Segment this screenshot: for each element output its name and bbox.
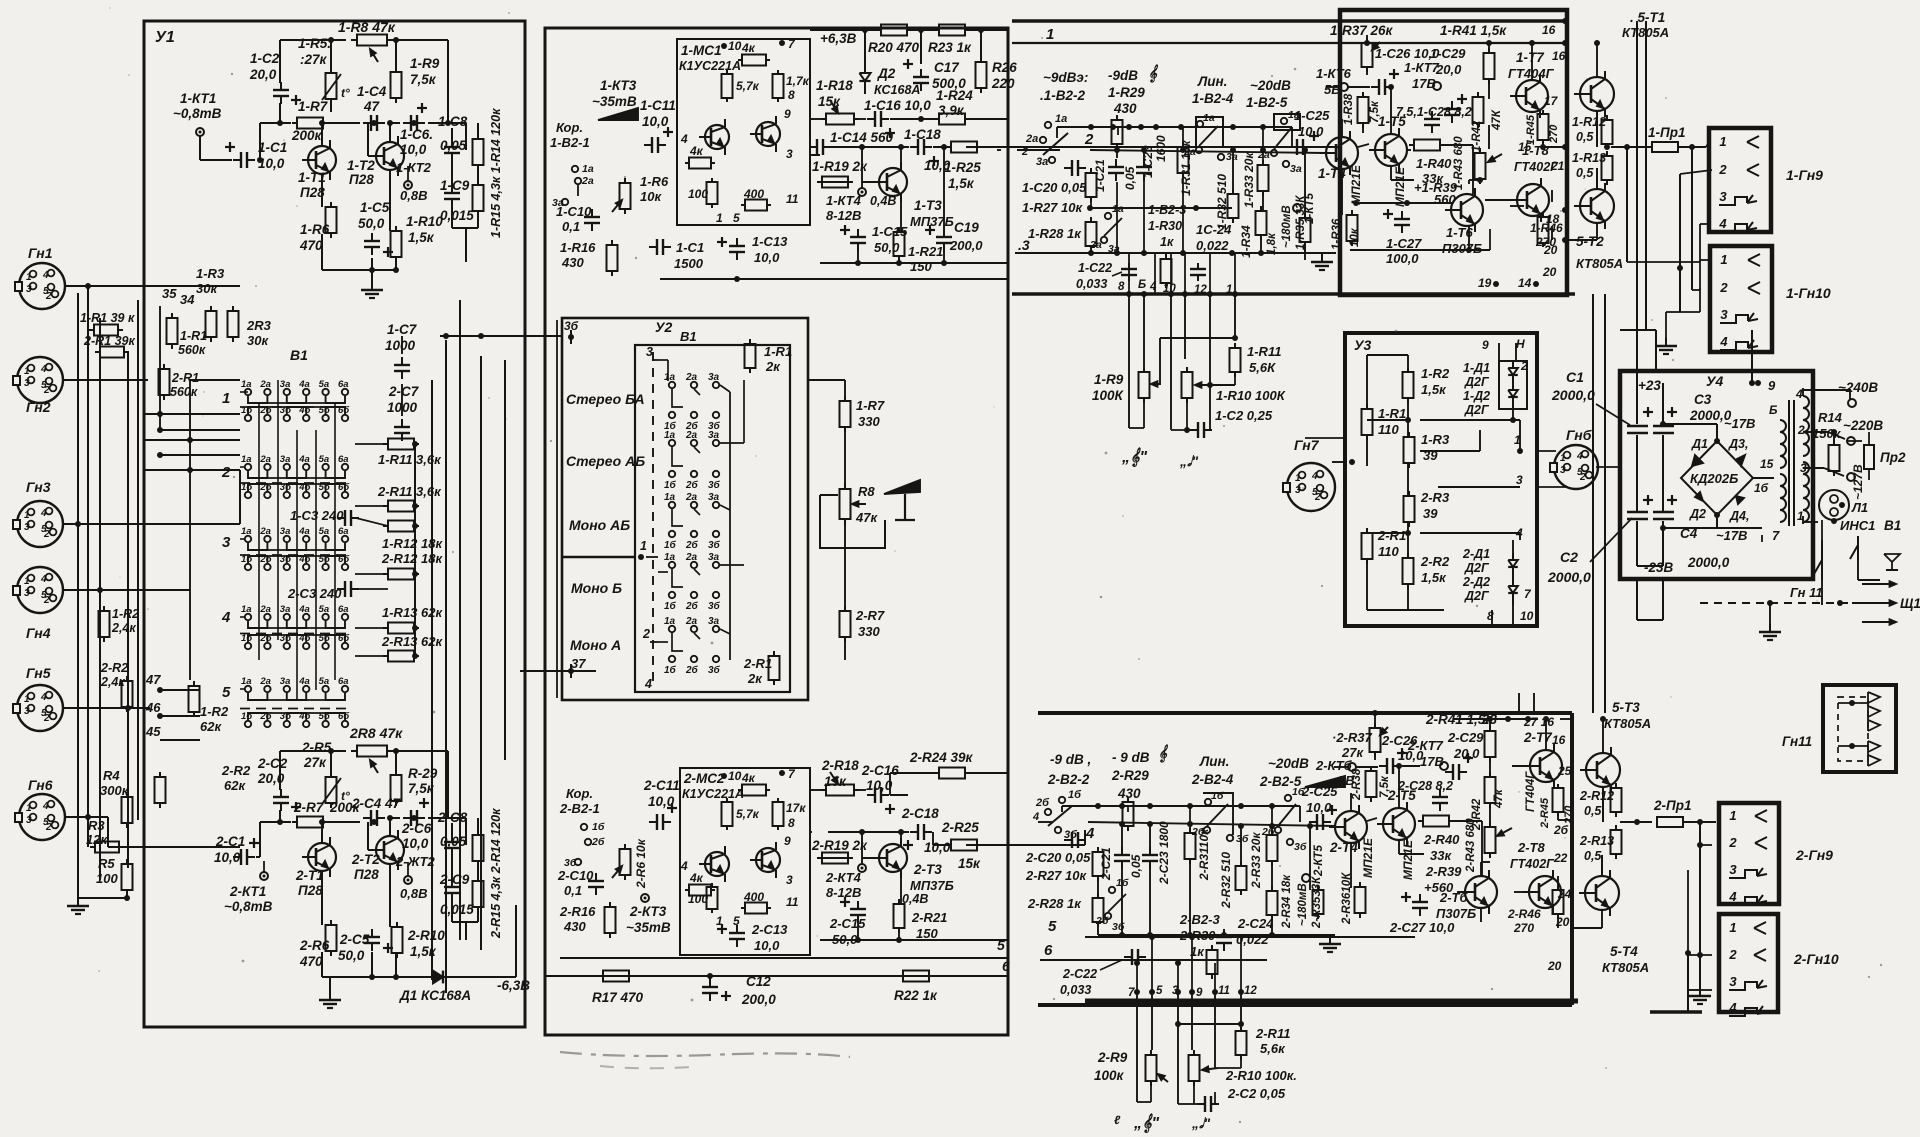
- svg-text:Д4,: Д4,: [1729, 509, 1749, 523]
- svg-text:5а: 5а: [319, 526, 330, 537]
- resistor 2-R24 39k: [934, 768, 970, 779]
- svg-text:1,5к: 1,5к: [1421, 570, 1447, 585]
- svg-text:1-С29: 1-С29: [1430, 46, 1466, 61]
- svg-text:3б: 3б: [708, 600, 721, 612]
- label bus 6: [1044, 942, 1053, 959]
- svg-text:4: 4: [40, 508, 47, 519]
- label 2-R3 30k: [246, 318, 272, 348]
- svg-text:2-R1: 2-R1: [743, 656, 772, 671]
- label 1-R13 62k: [382, 605, 443, 620]
- svg-text:47: 47: [363, 99, 381, 114]
- ground bottom right: [1650, 950, 1702, 1012]
- svg-text:С17: С17: [934, 60, 960, 75]
- svg-text:R3: R3: [88, 818, 105, 833]
- svg-text:1-Д2: 1-Д2: [1463, 389, 1490, 403]
- wire vert A: [87, 286, 89, 847]
- svg-text:1500: 1500: [674, 256, 704, 271]
- svg-text:МП37Б: МП37Б: [910, 878, 954, 893]
- svg-text:1а: 1а: [664, 492, 676, 503]
- label MC1 400: [743, 187, 764, 201]
- label 2-T6: [1436, 890, 1476, 921]
- svg-text:КТ805А: КТ805А: [1602, 960, 1649, 975]
- svg-text:2-С18: 2-С18: [901, 806, 939, 821]
- transistor 5-T1: [1574, 71, 1614, 117]
- svg-text:22: 22: [1553, 851, 1568, 865]
- capacitor 1-C4: [363, 115, 385, 131]
- label 1-KT1: [173, 91, 222, 121]
- label 1-C3 240: [290, 508, 344, 523]
- label 2-Pr1: [1653, 798, 1691, 813]
- transistor 5-T4: [1579, 870, 1619, 916]
- svg-text:10,0: 10,0: [402, 836, 429, 851]
- svg-text:2-R43 680: 2-R43 680: [1465, 818, 1477, 873]
- svg-text:1-R1: 1-R1: [764, 344, 792, 359]
- svg-text:34: 34: [180, 292, 195, 307]
- resistor 1-R42: [1473, 92, 1484, 128]
- svg-text:1б: 1б: [1211, 790, 1224, 802]
- svg-text:У3: У3: [1354, 337, 1371, 353]
- svg-text:Моно А: Моно А: [570, 637, 621, 653]
- svg-text:1а: 1а: [241, 454, 252, 465]
- label R26 220: [991, 60, 1017, 91]
- transistor 5-T3: [1580, 747, 1620, 793]
- svg-text:1-R41 1,5к: 1-R41 1,5к: [1440, 23, 1507, 38]
- resistor 1-R45 270: [1538, 110, 1549, 144]
- label 2-T1: [295, 868, 324, 898]
- svg-text:Гн5: Гн5: [26, 665, 51, 681]
- label Gn4: [26, 625, 51, 641]
- label R17 470: [592, 990, 644, 1005]
- label R5 100: [96, 856, 118, 886]
- svg-text:2а: 2а: [259, 526, 271, 537]
- svg-text:62к: 62к: [224, 778, 246, 793]
- svg-text:1-С25: 1-С25: [1294, 108, 1330, 123]
- label 1-C10: [556, 204, 592, 234]
- label 1-R29 430: [1108, 85, 1145, 116]
- svg-text:1-С9: 1-С9: [440, 178, 470, 193]
- svg-text:1-R36: 1-R36: [1331, 218, 1343, 250]
- svg-text:3: 3: [24, 706, 30, 717]
- wire 1-T8 region: [1510, 205, 1524, 207]
- label R14 150k: [1812, 410, 1843, 441]
- label 0.4V mc2: [902, 892, 928, 906]
- svg-text:2-R5: 2-R5: [301, 740, 332, 755]
- svg-text:1б: 1б: [664, 479, 677, 491]
- bus 1: [1012, 42, 1567, 44]
- svg-text:2-Гн10: 2-Гн10: [1793, 951, 1839, 967]
- svg-text:1-R38: 1-R38: [1343, 93, 1355, 125]
- svg-text:1б: 1б: [664, 664, 677, 676]
- label MP21E b2 rotated: [1401, 839, 1415, 880]
- label 7 u4: [1772, 528, 1780, 543]
- dots box1 edge: [1562, 18, 1568, 243]
- svg-text:1-R21: 1-R21: [908, 244, 943, 259]
- svg-text:3б: 3б: [708, 664, 721, 676]
- svg-text:В1: В1: [680, 329, 697, 344]
- label R23 1k: [928, 40, 972, 55]
- resistor 1-R1 2k: [745, 339, 756, 373]
- resistor 2-R1 39k: [95, 347, 129, 358]
- svg-text:30к: 30к: [196, 281, 218, 296]
- svg-text:1-R11: 1-R11: [1247, 344, 1281, 359]
- svg-text:1-R8 47к: 1-R8 47к: [338, 19, 396, 35]
- label 2-R7 200k: [293, 800, 361, 815]
- wire misc top: [1326, 35, 1370, 87]
- wire re u3 links: [1367, 420, 1513, 533]
- switch group 5 row a: [241, 676, 349, 692]
- svg-text:2-R15 4,3к 2-R14 120к: 2-R15 4,3к 2-R14 120к: [489, 808, 503, 939]
- resistor R22 1k: [898, 971, 934, 982]
- resistor 1-R16 430: [607, 240, 618, 276]
- svg-text:4к: 4к: [689, 871, 704, 885]
- switch group 3 row b: [241, 554, 350, 570]
- resistor 2-R27 10k: [1093, 847, 1104, 881]
- svg-text:4: 4: [680, 132, 688, 146]
- svg-text:5: 5: [1048, 918, 1057, 935]
- wire 1-T1 emitter: [322, 98, 331, 207]
- label 16 bridge: [1754, 481, 1769, 495]
- svg-text:3а: 3а: [1036, 156, 1048, 168]
- svg-text:R-29: R-29: [408, 766, 438, 781]
- svg-text:2-R21: 2-R21: [911, 910, 947, 925]
- svg-text:1,7к: 1,7к: [786, 74, 810, 88]
- svg-text:1000: 1000: [385, 338, 416, 353]
- svg-text:20: 20: [1543, 243, 1558, 257]
- svg-text:430: 430: [561, 255, 584, 270]
- svg-text:6а: 6а: [338, 604, 349, 615]
- wire 2-T4 T5: [1351, 763, 1402, 888]
- connector 2-Gn10: [1719, 914, 1778, 1016]
- svg-text:R22 1к: R22 1к: [894, 988, 938, 1003]
- label MC1 100: [688, 187, 708, 201]
- svg-text:2-С11: 2-С11: [643, 778, 680, 793]
- label 2-C25: [1301, 784, 1338, 815]
- svg-text:Гн6: Гн6: [28, 777, 53, 793]
- label 45: [145, 724, 161, 739]
- label 1-R5 27k: [298, 36, 331, 67]
- svg-text:100: 100: [688, 892, 708, 906]
- potentiometer 2R8 47k: [351, 746, 393, 774]
- svg-text:1-С1: 1-С1: [676, 240, 704, 255]
- test point 1-KT2: [404, 166, 412, 189]
- resistor 1-R41 1.5k: [1484, 48, 1495, 84]
- svg-text:2-R19 2к: 2-R19 2к: [811, 838, 868, 853]
- svg-text:4а: 4а: [298, 604, 310, 615]
- svg-text:1-R7: 1-R7: [856, 398, 885, 413]
- label 1-R11 3.6k: [378, 452, 442, 467]
- pins box1: [1478, 23, 1566, 290]
- label D2: [1689, 507, 1706, 521]
- wires conn2: [1688, 822, 1712, 990]
- label Mono B: [571, 580, 622, 596]
- capacitor 1-C25: [1289, 131, 1319, 155]
- svg-text:Д3,: Д3,: [1728, 437, 1748, 451]
- label GT404G rotated: [1525, 771, 1537, 812]
- wire U2 sep: [563, 554, 644, 560]
- capacitor 2-C10: [588, 873, 604, 895]
- svg-text:2-С15: 2-С15: [829, 916, 866, 931]
- svg-text:2-Д2: 2-Д2: [1462, 575, 1490, 589]
- svg-text:2-R13: 2-R13: [1579, 834, 1614, 848]
- svg-text:220: 220: [991, 76, 1015, 91]
- test point 1-KT4: [858, 188, 866, 196]
- svg-text:ИНС1: ИНС1: [1840, 518, 1875, 533]
- bridge KD202B: [1681, 441, 1753, 515]
- dashed gn11: [1700, 602, 1850, 604]
- svg-text:3: 3: [1729, 974, 1737, 989]
- svg-text:4: 4: [40, 364, 47, 375]
- svg-text:2а: 2а: [685, 492, 698, 503]
- svg-text:1-С20 0,05: 1-С20 0,05: [1022, 180, 1087, 195]
- svg-text:2-R13 62к: 2-R13 62к: [381, 634, 443, 649]
- switch 1-B2-3a: [1089, 203, 1124, 255]
- switch group 2 label: [221, 464, 231, 481]
- svg-text:47к: 47к: [1493, 788, 1505, 809]
- svg-text:4: 4: [1795, 387, 1803, 401]
- label 1-Gn9: [1786, 167, 1823, 183]
- svg-text:Н: Н: [1516, 337, 1525, 351]
- svg-text:6: 6: [1044, 942, 1053, 959]
- wires long vert mid: [1519, 693, 1534, 713]
- svg-text:1а: 1а: [1203, 112, 1215, 124]
- svg-text:3: 3: [1719, 189, 1727, 204]
- transistor 1-T4: [1320, 131, 1358, 175]
- svg-text:В1: В1: [290, 347, 308, 363]
- wedge rec indicator: [598, 108, 638, 120]
- svg-text:Б: Б: [1769, 403, 1778, 417]
- switch 1-B2-2: [1021, 113, 1068, 168]
- svg-text:4а: 4а: [298, 379, 310, 390]
- label 2-T8: [1510, 840, 1555, 871]
- svg-text:~0,8тВ: ~0,8тВ: [224, 899, 273, 914]
- svg-text:R8: R8: [858, 484, 875, 499]
- svg-text:10,0: 10,0: [1298, 124, 1324, 139]
- capacitor 1-C13: [717, 237, 745, 260]
- svg-text:4: 4: [1719, 334, 1728, 349]
- wire long vert 1: [1592, 294, 1594, 713]
- capacitor 1-C20: [1064, 160, 1086, 176]
- svg-text:КД202Б: КД202Б: [1690, 471, 1738, 486]
- resistor 1-R2 1.5k u3: [1403, 367, 1414, 403]
- capacitor 1-C1 1500: [649, 239, 671, 255]
- capacitor 2-C26: [1379, 748, 1407, 774]
- svg-text:100,0: 100,0: [1386, 251, 1419, 266]
- svg-text:1-R18: 1-R18: [816, 78, 853, 93]
- svg-text:1-R43 680: 1-R43 680: [1453, 136, 1465, 190]
- svg-text:9: 9: [1482, 338, 1489, 352]
- label U4: [1706, 373, 1723, 389]
- label V1 switch: [1884, 518, 1901, 533]
- label 2-C21 rotated: [1099, 847, 1113, 881]
- label 0.4V: [870, 194, 896, 208]
- resistor 2-R3 30k: [228, 306, 239, 342]
- switch B1 group 5: [664, 616, 721, 676]
- svg-text:R5: R5: [98, 856, 115, 871]
- resistor MC1 5.7k: [722, 70, 733, 102]
- svg-text:9: 9: [784, 107, 791, 121]
- svg-text:1а: 1а: [241, 379, 252, 390]
- capacitor 2-C8: [444, 834, 460, 856]
- label 1-KT3: [592, 78, 637, 109]
- ic 2-MC2 box: [680, 768, 810, 955]
- wire 2-T2 leads: [368, 815, 393, 927]
- svg-text:4: 4: [40, 692, 47, 703]
- label 2-R1 560k: [170, 371, 199, 399]
- capacitor 1-C11: [644, 127, 673, 153]
- svg-text:0,8В: 0,8В: [400, 886, 427, 901]
- transistor 2-T2: [370, 830, 404, 870]
- label 2-KT4: [825, 870, 862, 900]
- svg-text:0,5: 0,5: [1576, 130, 1594, 144]
- svg-text:5-Т3: 5-Т3: [1612, 700, 1640, 715]
- svg-text:1-R1: 1-R1: [1378, 406, 1406, 421]
- svg-text:Лин.: Лин.: [1197, 74, 1227, 89]
- label 35: [162, 286, 177, 301]
- label 1-R1 39k: [80, 311, 135, 325]
- resistor 1-R13 62k: [383, 623, 419, 634]
- label 1-C28: [1396, 105, 1472, 119]
- switch 2-B2-1: [564, 821, 605, 869]
- label -23V: [1644, 560, 1674, 575]
- svg-text:8-12В: 8-12В: [826, 885, 861, 900]
- transistor 2-T4: [1329, 805, 1367, 849]
- capacitor 2-C4: [363, 810, 385, 826]
- svg-text:2б: 2б: [1553, 823, 1569, 837]
- label 2-R25 15k: [941, 820, 981, 871]
- switch group 3 row a: [241, 526, 349, 542]
- capacitor 2-C29: [1445, 753, 1473, 780]
- svg-text:1-R37 26к: 1-R37 26к: [1330, 23, 1394, 38]
- label bus 4: [1085, 825, 1095, 842]
- label -9dB 1: [1043, 70, 1088, 85]
- svg-text:2-С2 0,05: 2-С2 0,05: [1227, 1086, 1286, 1101]
- svg-text:4: 4: [1576, 451, 1583, 462]
- label 1-R36 10k rotated: [1331, 218, 1361, 250]
- svg-text:10: 10: [728, 769, 742, 783]
- label 1-R41 1.5k: [1440, 23, 1507, 38]
- svg-text:1-R7: 1-R7: [298, 99, 329, 114]
- wire diode out: [455, 905, 516, 977]
- label R4 300k: [100, 768, 130, 798]
- label 2-R16 430: [559, 904, 596, 934]
- svg-text:1-С4: 1-С4: [357, 84, 387, 99]
- svg-text:С1: С1: [1566, 369, 1584, 385]
- label Gn 11: [1790, 585, 1843, 606]
- resistor 1-R34: [1256, 206, 1267, 240]
- svg-text:1б: 1б: [1754, 481, 1769, 495]
- potentiometer 1-R18 15k: [821, 100, 859, 125]
- label 1-C22: [1076, 261, 1112, 291]
- svg-text:2-С3 240: 2-С3 240: [287, 586, 342, 601]
- label 2-C5: [338, 932, 370, 963]
- test point 2-KT2: [404, 862, 412, 884]
- label 1-R3 39: [1421, 432, 1450, 463]
- label 1-R1 2k: [764, 344, 792, 374]
- svg-text:11: 11: [786, 895, 799, 909]
- svg-text:1-КТ1: 1-КТ1: [180, 91, 216, 106]
- label 1-C2 0.25: [1215, 408, 1273, 423]
- label 2-R24 39k: [909, 750, 974, 765]
- svg-text:Гн11: Гн11: [1782, 734, 1812, 749]
- svg-text:4: 4: [40, 574, 47, 585]
- resistor 2-R15: [473, 830, 484, 866]
- svg-text:2: 2: [1797, 423, 1805, 437]
- svg-text:0,033: 0,033: [1076, 277, 1107, 291]
- transformer secondary: [1803, 396, 1809, 522]
- switch group 5 coupling dashed: [240, 708, 352, 710]
- svg-text:2: 2: [1314, 492, 1321, 503]
- svg-text:0,022: 0,022: [1196, 238, 1229, 253]
- label MC2 5.7k: [736, 807, 760, 821]
- svg-text:2-R29: 2-R29: [1111, 768, 1149, 783]
- switch 2-B2-2: [1032, 789, 1082, 841]
- svg-text:0,1: 0,1: [564, 883, 582, 898]
- label 2-T2: [351, 852, 380, 882]
- label 2000.0 bottom: [1687, 555, 1730, 570]
- wire ch1 y40: [280, 37, 448, 43]
- wire y208 tone1: [1087, 205, 1232, 211]
- svg-text:1: 1: [1046, 26, 1054, 43]
- svg-text:3а: 3а: [280, 676, 291, 687]
- label 1-R15 1-R14 rotated: [489, 108, 503, 238]
- fuse 2-Pr1: [1657, 817, 1716, 827]
- svg-text:1-МС1: 1-МС1: [681, 43, 722, 58]
- svg-text:ℓ: ℓ: [1114, 1113, 1121, 1127]
- switch group 1 row a: [241, 379, 349, 395]
- wire bus56 mid: [545, 937, 1010, 976]
- label D1: [1691, 437, 1708, 451]
- wire 2-T7 region: [1512, 716, 1572, 820]
- resistor MC2 400: [741, 903, 771, 914]
- svg-text:2-Т8: 2-Т8: [1517, 840, 1546, 855]
- svg-text:2а: 2а: [259, 379, 271, 390]
- switch group 1 row b: [241, 405, 350, 421]
- label 1-KT6: [1316, 66, 1352, 97]
- wire h4: [63, 589, 190, 591]
- svg-text:200,0: 200,0: [741, 992, 776, 1007]
- connector Gn5: [13, 685, 63, 731]
- label 1-T8: [1514, 143, 1559, 174]
- svg-text:2-ЖТ2: 2-ЖТ2: [395, 854, 436, 869]
- svg-text:1а: 1а: [241, 526, 252, 537]
- wire vert x481: [480, 356, 482, 950]
- potentiometer 1-R9 100k: [1139, 367, 1161, 403]
- wire 2-T6 region: [1457, 862, 1490, 922]
- svg-text:5,6К: 5,6К: [1249, 360, 1276, 375]
- wire 5T1 region: [1594, 40, 1600, 77]
- capacitor 1-C15: [840, 225, 866, 251]
- resistor 2-R21 150: [894, 899, 905, 933]
- test point 2-KT6: [1348, 763, 1356, 771]
- capacitor 2-C20: [1064, 832, 1086, 848]
- svg-text::27к: :27к: [300, 52, 328, 67]
- svg-text:3а: 3а: [708, 552, 720, 563]
- svg-text:.1-В2-2: .1-В2-2: [1040, 88, 1086, 103]
- svg-text:2-С13: 2-С13: [751, 922, 788, 937]
- wire long vert 3: [1637, 21, 1646, 371]
- svg-text:110: 110: [1378, 544, 1399, 559]
- svg-text:1-Пр1: 1-Пр1: [1648, 125, 1685, 140]
- svg-text:1-С5: 1-С5: [360, 200, 390, 215]
- svg-text:3: 3: [222, 534, 231, 551]
- ground left bottom: [67, 898, 89, 914]
- svg-text:1-Гн9: 1-Гн9: [1786, 167, 1823, 183]
- svg-text:-23В: -23В: [1644, 560, 1674, 575]
- svg-text:2-С2: 2-С2: [257, 756, 288, 771]
- svg-text:2-R7: 2-R7: [855, 608, 885, 623]
- svg-text:1-Гн10: 1-Гн10: [1786, 285, 1831, 301]
- label 2-R12 0.5: [1579, 789, 1614, 818]
